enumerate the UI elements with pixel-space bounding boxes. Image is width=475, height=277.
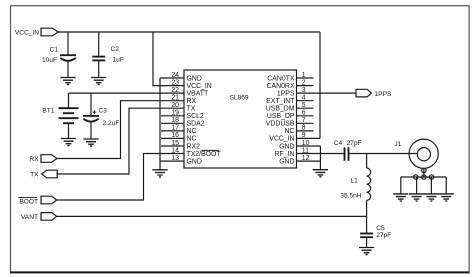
svg-text:19: 19 xyxy=(171,110,179,117)
svg-text:17: 17 xyxy=(171,125,179,132)
wire C2 bottom xyxy=(98,60,100,77)
svg-text:GND: GND xyxy=(279,158,294,165)
wire VCC rail drop to pin 9 xyxy=(319,32,321,138)
svg-text:22: 22 xyxy=(171,87,179,94)
pin numbers right xyxy=(302,72,310,162)
svg-text:J1: J1 xyxy=(394,141,401,148)
wire C1 top xyxy=(67,32,69,55)
pin 16 stub xyxy=(161,137,184,139)
svg-text:C1: C1 xyxy=(50,47,59,54)
port VCC_IN xyxy=(15,28,58,36)
wire J1 ground bus xyxy=(401,177,446,194)
wire C2 top xyxy=(98,32,100,57)
svg-text:TX: TX xyxy=(187,106,196,113)
capacitor C5 xyxy=(360,225,391,239)
wire VCC rail xyxy=(58,31,320,33)
pin 15 stub xyxy=(161,145,184,147)
wire 1PPS from pin 3 xyxy=(297,92,357,94)
pin 4 stub xyxy=(297,100,314,102)
svg-text:VBATT: VBATT xyxy=(187,90,209,97)
wire RX route xyxy=(57,101,184,159)
wire C4 to J1 xyxy=(349,153,418,155)
svg-text:NC: NC xyxy=(187,128,197,135)
wire C3 top xyxy=(90,93,92,116)
pin 24 stub xyxy=(160,77,184,79)
svg-text:GND: GND xyxy=(187,75,202,82)
node shield pin mid xyxy=(422,175,426,179)
port VANT xyxy=(21,213,57,222)
svg-text:USB_DP: USB_DP xyxy=(267,113,295,120)
pin 7 stub xyxy=(297,122,314,124)
svg-text:18: 18 xyxy=(171,117,179,124)
wire BOOT route xyxy=(57,154,185,201)
svg-text:RX2: RX2 xyxy=(187,143,201,150)
pin 1 stub xyxy=(297,77,314,79)
svg-text:2.2uF: 2.2uF xyxy=(103,120,120,127)
svg-text:L1: L1 xyxy=(351,178,359,185)
wire BT1 top xyxy=(68,93,70,108)
svg-text:RF_IN: RF_IN xyxy=(275,151,295,158)
pin 2 stub xyxy=(297,85,314,87)
pin numbers left xyxy=(171,72,179,162)
ground under BT1 xyxy=(61,139,76,146)
svg-text:EXT_INT: EXT_INT xyxy=(266,98,295,105)
pin 18 stub xyxy=(161,122,184,124)
svg-text:SDA2: SDA2 xyxy=(187,121,205,128)
ground under C3 xyxy=(83,139,98,146)
svg-text:20: 20 xyxy=(171,102,179,109)
pin labels right xyxy=(266,75,295,165)
op-amp U1 SL869 body xyxy=(184,70,297,168)
ground under C2 xyxy=(91,78,106,85)
svg-text:SCL2: SCL2 xyxy=(187,113,204,120)
svg-text:TX2/BOOT: TX2/BOOT xyxy=(187,151,222,158)
port 1PPS xyxy=(356,89,392,98)
svg-text:VCC_IN: VCC_IN xyxy=(269,136,294,143)
node J1 shield pin xyxy=(422,168,426,172)
svg-text:USB_DM: USB_DM xyxy=(266,106,295,113)
svg-text:VCC_IN: VCC_IN xyxy=(187,83,212,90)
svg-text:NC: NC xyxy=(187,136,197,143)
svg-text:SL869: SL869 xyxy=(230,95,249,102)
pin labels left xyxy=(187,75,222,165)
wire VANT route xyxy=(57,215,367,217)
svg-text:1uF: 1uF xyxy=(113,56,124,63)
svg-text:CAN0RX: CAN0RX xyxy=(267,83,295,90)
svg-text:21: 21 xyxy=(171,95,179,102)
ground under C5 xyxy=(359,248,374,255)
svg-text:NC: NC xyxy=(285,128,295,135)
pin 12 stub xyxy=(297,160,321,162)
svg-text:TX: TX xyxy=(30,172,39,179)
node shield pin right xyxy=(429,175,433,179)
svg-text:C3: C3 xyxy=(99,107,108,114)
pin 5 stub xyxy=(297,107,314,109)
ground J1 b xyxy=(409,194,424,201)
wire J1 shield drop xyxy=(423,168,425,177)
pin 19 stub xyxy=(161,115,184,117)
wire GND link pins 10-12 xyxy=(319,146,321,170)
capacitor C1 xyxy=(42,47,76,64)
ground J1 d xyxy=(439,194,454,201)
wire BT1 bottom xyxy=(68,123,70,138)
wire C1 bottom xyxy=(67,61,69,78)
svg-text:VANT: VANT xyxy=(21,214,38,221)
pin 10 stub xyxy=(297,145,321,147)
capacitor C3 xyxy=(83,107,119,127)
svg-text:14: 14 xyxy=(171,147,179,154)
capacitor C2 xyxy=(92,46,124,63)
ground J1 a xyxy=(393,194,408,201)
svg-text:RX: RX xyxy=(187,98,197,105)
node shield pin left xyxy=(414,175,418,179)
ground under C1 xyxy=(60,78,75,85)
port BOOT xyxy=(18,196,56,205)
svg-text:CAN0TX: CAN0TX xyxy=(267,75,295,82)
svg-text:GND: GND xyxy=(279,143,294,150)
svg-text:RX: RX xyxy=(29,156,39,163)
wire L1 to C5 xyxy=(366,200,368,233)
svg-text:GND: GND xyxy=(187,158,202,165)
port RX xyxy=(29,155,57,164)
svg-text:24: 24 xyxy=(171,72,179,79)
ground under IC right xyxy=(313,170,328,177)
svg-text:VCC_IN: VCC_IN xyxy=(15,30,39,37)
svg-text:BT1: BT1 xyxy=(42,108,54,115)
ground under IC left xyxy=(152,170,167,177)
ground J1 c xyxy=(424,194,439,201)
svg-text:15: 15 xyxy=(171,140,179,147)
battery BT1 xyxy=(42,108,78,124)
wire VCC drop to pin 23 xyxy=(153,32,184,86)
wire L1 top xyxy=(366,154,368,169)
capacitor C4 xyxy=(334,140,362,161)
svg-text:13: 13 xyxy=(171,155,179,162)
wire C5 bottom xyxy=(366,237,368,247)
wire GND link pins 24-13 xyxy=(159,78,161,170)
svg-text:VDDUSB: VDDUSB xyxy=(266,121,295,128)
pin 6 stub xyxy=(297,115,314,117)
svg-text:16: 16 xyxy=(171,132,179,139)
svg-text:C4: C4 xyxy=(334,140,343,147)
svg-text:BOOT: BOOT xyxy=(19,198,38,205)
pin 17 stub xyxy=(161,130,184,132)
svg-text:27pF: 27pF xyxy=(376,232,391,239)
svg-text:1PPS: 1PPS xyxy=(375,91,392,98)
svg-text:23: 23 xyxy=(171,79,179,86)
wire VBATT rail xyxy=(69,92,185,94)
svg-text:10uF: 10uF xyxy=(42,57,57,64)
inductor L1 xyxy=(340,168,370,200)
pin 8 stub xyxy=(297,130,314,132)
wire RF_IN to C4 xyxy=(297,153,345,155)
svg-text:1PPS: 1PPS xyxy=(277,90,295,97)
connector J1 xyxy=(394,139,438,168)
wire C3 bottom xyxy=(90,122,92,139)
port TX xyxy=(30,170,57,179)
svg-text:35.5nH: 35.5nH xyxy=(340,192,362,199)
pin 9 stub xyxy=(297,137,321,139)
pin 13 stub xyxy=(160,160,184,162)
svg-text:C2: C2 xyxy=(111,46,120,53)
svg-text:27pF: 27pF xyxy=(347,140,362,147)
wire TX route xyxy=(57,108,184,174)
